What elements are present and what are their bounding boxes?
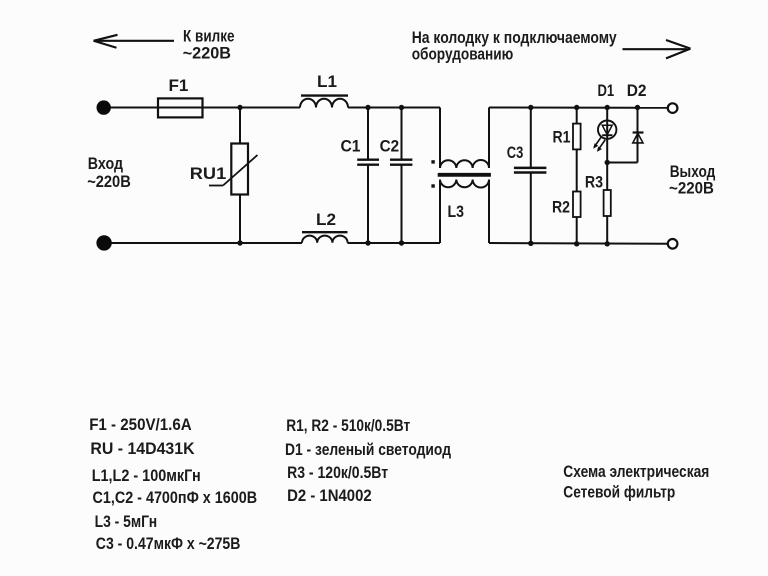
svg-text:R1, R2 - 510к/0.5Вт: R1, R2 - 510к/0.5Вт [286, 416, 410, 435]
node C2 top [399, 105, 404, 110]
resistor R3 [604, 190, 611, 216]
wire top rail left (through fuse) [110, 107, 300, 109]
node C1 bottom [365, 240, 370, 245]
wire L3 bottom-right vertical [488, 180, 490, 244]
wire D2 branch vertical [637, 108, 639, 163]
svg-text:D2: D2 [627, 81, 647, 100]
output terminal bottom [668, 239, 678, 249]
resistor R1 [573, 124, 581, 150]
svg-text:Схема электрическая: Схема электрическая [563, 462, 709, 481]
svg-text:F1: F1 [169, 76, 189, 95]
svg-text:D2 - 1N4002: D2 - 1N4002 [287, 486, 372, 505]
varistor RU1 [209, 144, 258, 195]
node C3 bottom [528, 241, 533, 246]
capacitor C1 [357, 108, 379, 244]
svg-text:~220В: ~220В [183, 44, 231, 63]
node at RU1 bottom [237, 240, 242, 245]
node D1 top [605, 105, 610, 110]
L3 polarity dot bottom [431, 184, 434, 187]
svg-text:C3: C3 [507, 143, 524, 162]
L3 polarity dot top [431, 160, 434, 163]
L3 top winding [440, 160, 489, 168]
wire L3 bottom-left vertical [439, 180, 441, 244]
wire top rail right [489, 107, 668, 109]
capacitor C3 [514, 108, 547, 244]
wire bottom rail (L2 to L3) [348, 242, 441, 244]
wire top rail (L1 to L3) [348, 107, 440, 109]
arrow to plug (left) [94, 35, 175, 48]
wire D2 to junction [607, 162, 637, 164]
L3 bottom winding [440, 180, 489, 188]
node D2 top [635, 105, 640, 110]
node D1/D2/R3 junction [605, 160, 610, 165]
LED D1 emission arrows [594, 137, 601, 147]
svg-text:L1,L2 - 100мкГн: L1,L2 - 100мкГн [92, 466, 201, 485]
svg-text:R3: R3 [585, 173, 603, 192]
svg-text:C1: C1 [341, 136, 361, 155]
inductor L1 [300, 96, 348, 108]
svg-text:D1: D1 [598, 81, 615, 100]
svg-text:L3 - 5мГн: L3 - 5мГн [95, 512, 158, 531]
inductor L2 [302, 232, 348, 243]
input terminal top [97, 100, 111, 114]
wire D1 branch vertical [606, 108, 608, 163]
svg-text:R3 - 120к/0.5Вт: R3 - 120к/0.5Вт [287, 463, 388, 482]
fuse F1 [158, 98, 203, 117]
common-mode choke L3 [438, 108, 491, 244]
svg-text:C3 - 0.47мкФ х ~275В: C3 - 0.47мкФ х ~275В [96, 534, 241, 553]
svg-text:Вход: Вход [88, 154, 123, 173]
svg-text:C1,C2 - 4700пФ х 1600В: C1,C2 - 4700пФ х 1600В [93, 488, 258, 507]
wire R3 lower lead [606, 216, 608, 244]
svg-text:L3: L3 [448, 202, 465, 221]
svg-text:RU - 14D431K: RU - 14D431K [90, 439, 195, 458]
svg-text:R2: R2 [552, 198, 570, 217]
arrow to equipment (right) [623, 40, 691, 58]
svg-text:L2: L2 [316, 210, 336, 229]
node R1 top [574, 105, 579, 110]
wire R1 upper lead [576, 108, 578, 124]
wire bottom rail right [489, 242, 668, 245]
resistor R2 [573, 192, 581, 218]
wire between R1 and R2 [576, 149, 578, 191]
node R2 bottom [574, 241, 579, 246]
wire bottom rail left [111, 242, 302, 244]
node C1 top [365, 105, 370, 110]
capacitor C2 [390, 108, 412, 244]
svg-text:F1 - 250V/1.6A: F1 - 250V/1.6A [89, 415, 192, 434]
wire RU1 upper lead [239, 108, 241, 144]
svg-text:Сетевой фильтр: Сетевой фильтр [563, 483, 675, 502]
svg-text:L1: L1 [317, 72, 337, 91]
svg-text:R1: R1 [553, 128, 571, 147]
svg-text:~220В: ~220В [87, 172, 131, 191]
svg-text:оборудованию: оборудованию [412, 45, 514, 64]
svg-text:D1 - зеленый светодиод: D1 - зеленый светодиод [285, 440, 451, 459]
svg-text:~220В: ~220В [669, 178, 714, 197]
wire RU1 lower lead [239, 195, 241, 244]
output terminal top [668, 103, 678, 113]
node at RU1 top [237, 105, 242, 110]
node R3 bottom [605, 241, 610, 246]
wire R3 upper lead [606, 163, 608, 191]
node C3 top [528, 105, 533, 110]
wire R2 lower lead [576, 217, 578, 244]
svg-text:RU1: RU1 [190, 164, 226, 183]
input terminal bottom [96, 235, 111, 250]
svg-text:C2: C2 [380, 137, 400, 156]
LED D1 [593, 121, 616, 152]
L3 core bar [438, 173, 491, 177]
node C2 bottom [399, 240, 404, 245]
wire L3 top-left vertical [439, 108, 441, 169]
wire L3 top-right vertical [488, 108, 490, 169]
diode D2 [633, 133, 644, 143]
